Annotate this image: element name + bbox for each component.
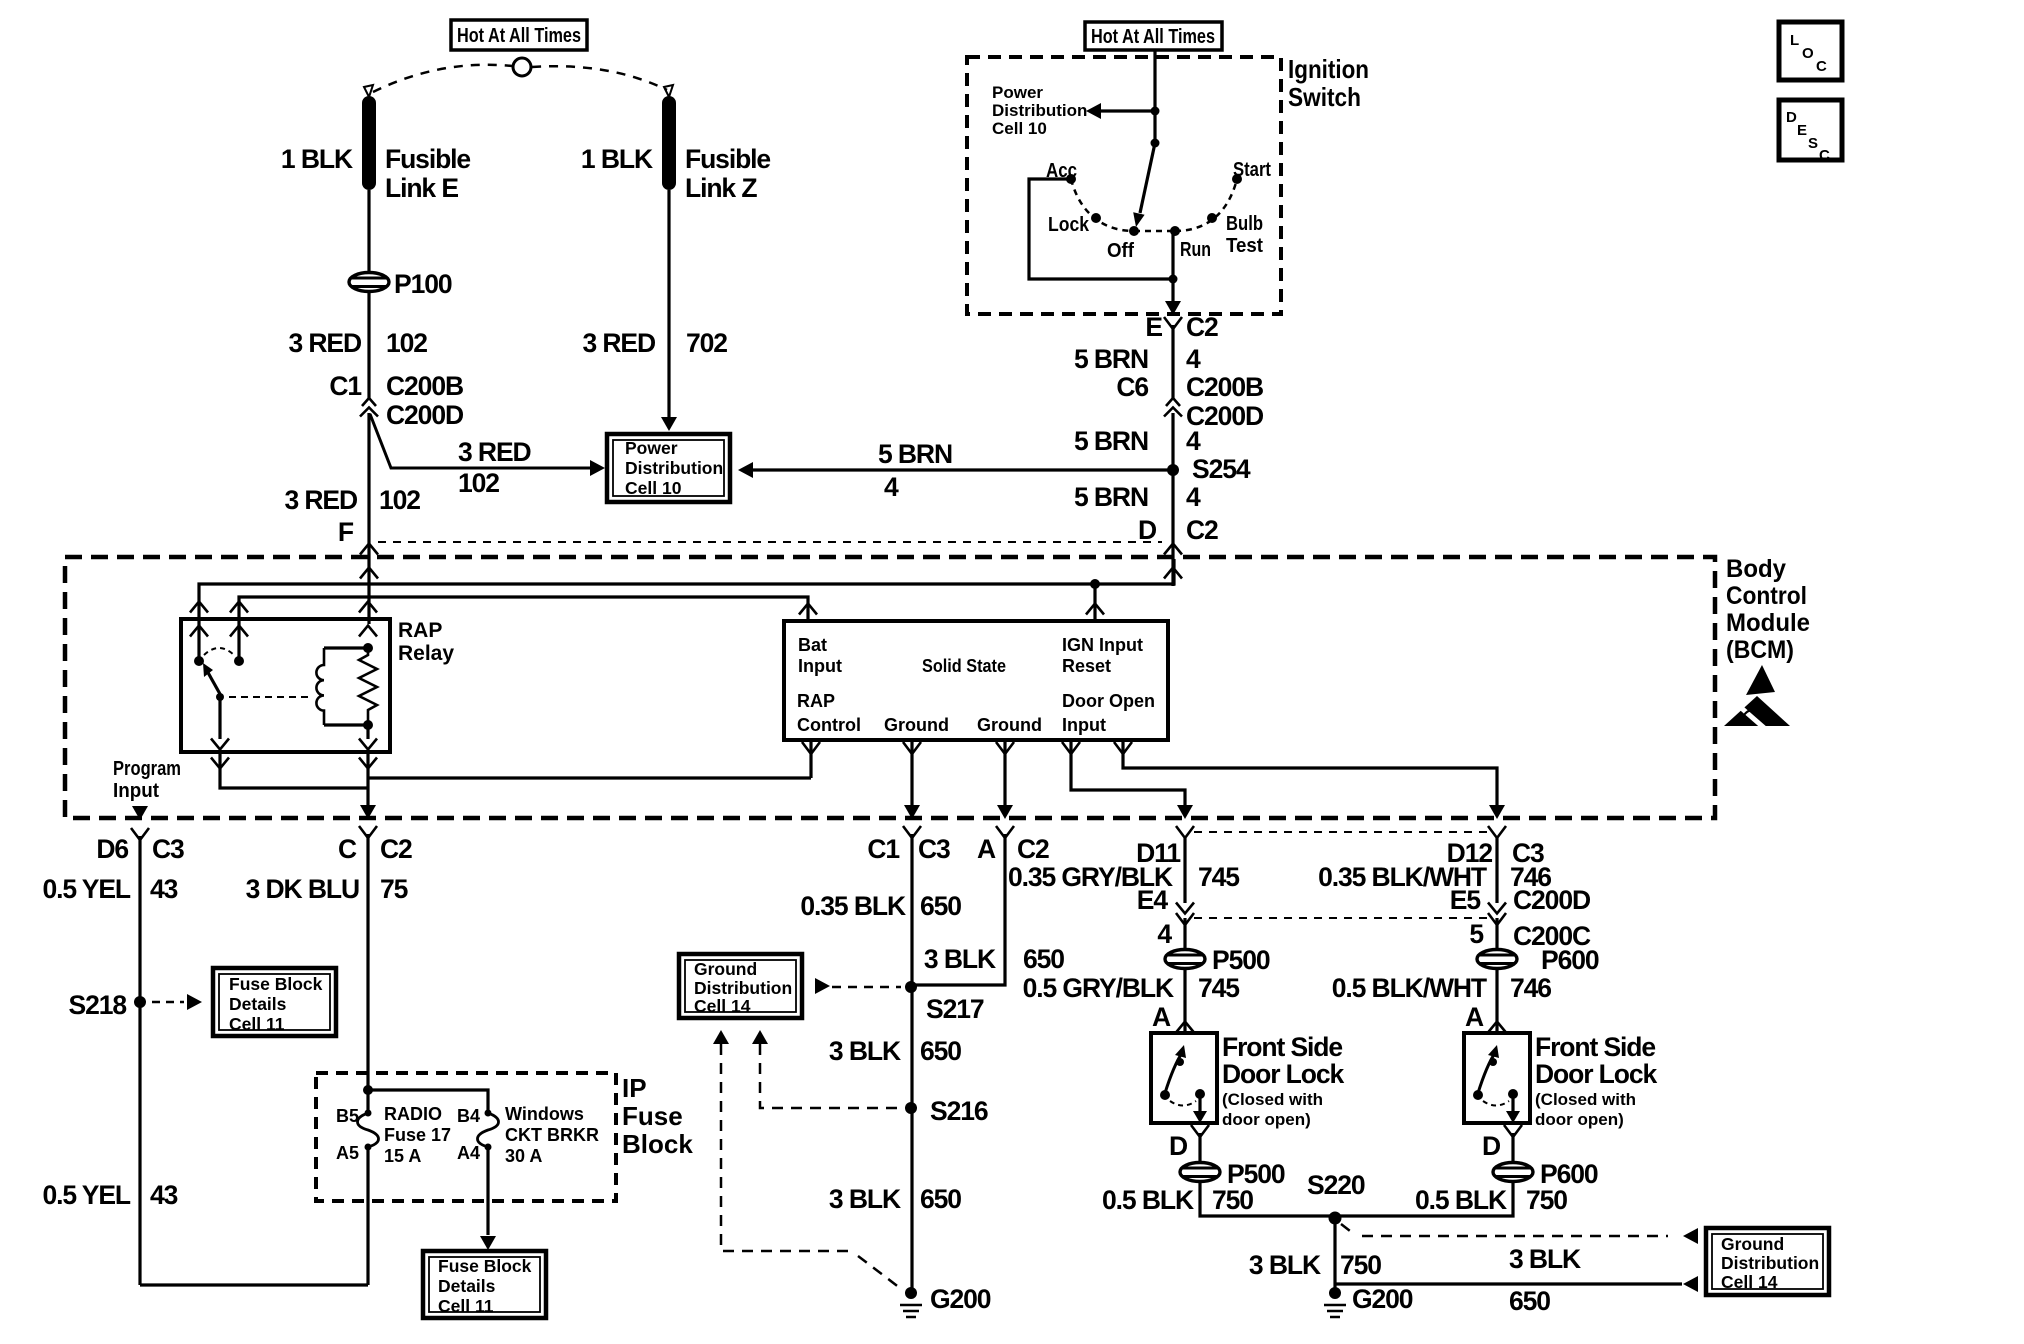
bus wire battery feed (bus1) [199, 559, 1174, 621]
junction dot IGN input tap [1090, 579, 1100, 589]
door lock contact R dot (left) [1195, 1089, 1205, 1099]
svg-text:3 BLK: 3 BLK [1249, 1250, 1321, 1280]
junction dot (ignition feed) [1151, 107, 1160, 116]
door lock arm arrowhead (right) [1488, 1045, 1499, 1058]
wire P600 to S220 [1335, 1183, 1513, 1216]
door lock arm dot (right) [1489, 1058, 1497, 1066]
svg-text:Input: Input [113, 780, 159, 802]
svg-text:Hot At All Times: Hot At All Times [1091, 26, 1215, 48]
wire A C2 to S217 [913, 834, 1005, 985]
svg-text:0.5 GRY/BLK: 0.5 GRY/BLK [1023, 973, 1174, 1003]
chevron ignition output [1164, 317, 1182, 329]
svg-text:C3: C3 [152, 834, 184, 864]
svg-text:B4: B4 [457, 1106, 480, 1126]
IP Fuse Block dashed box [316, 1073, 616, 1201]
junction dot below Run [1169, 275, 1178, 284]
connector P600 (lower) [1493, 1163, 1533, 1182]
svg-text:Power: Power [992, 83, 1043, 102]
svg-text:Fuse: Fuse [622, 1101, 683, 1131]
wire S254 to Power Distribution [752, 468, 1173, 471]
chevron below BCM (C1) [903, 826, 921, 838]
chevron IGN Input pin [1086, 604, 1104, 615]
wire C C2 down to fuse block [366, 834, 369, 1113]
svg-text:Run: Run [1180, 239, 1211, 261]
chevron RAP Control pin [802, 742, 820, 754]
svg-text:Fuse 17: Fuse 17 [384, 1125, 451, 1145]
ignition wiper arrowhead [1133, 212, 1144, 227]
svg-text:4: 4 [884, 472, 899, 502]
junction bus bar splice (Hot At All Times) [451, 20, 587, 50]
relay switch output chevrons [211, 739, 229, 750]
svg-text:E4: E4 [1137, 885, 1169, 915]
wire link Z to Power Distribution [667, 190, 670, 417]
splice S254 [1167, 464, 1179, 476]
connector P500 (lower) [1180, 1163, 1220, 1182]
svg-text:C: C [338, 834, 357, 864]
contact Lock [1091, 213, 1101, 223]
svg-text:5: 5 [1469, 919, 1483, 949]
connector C200B/C200D chevrons (left) [362, 398, 376, 406]
svg-text:Relay: Relay [398, 642, 454, 665]
svg-text:G200: G200 [1352, 1284, 1413, 1314]
svg-text:Front Side: Front Side [1535, 1032, 1655, 1062]
Fuse Block Details Cell 11 box (lower) [423, 1251, 546, 1318]
chevron below BCM (D6) [131, 828, 149, 840]
ground G200 (left) [905, 1287, 917, 1299]
svg-text:Ground: Ground [977, 715, 1042, 735]
svg-text:Ground: Ground [884, 715, 949, 735]
chevron at BCM boundary (D) [1164, 544, 1182, 555]
svg-text:Front Side: Front Side [1222, 1032, 1342, 1062]
svg-text:RAP: RAP [797, 691, 835, 711]
svg-text:102: 102 [458, 468, 499, 498]
wire A5 down [366, 1147, 369, 1285]
svg-text:Door Lock: Door Lock [1535, 1059, 1657, 1089]
contact Run [1170, 226, 1180, 236]
arrowhead dashed (right ground dist) [1683, 1228, 1698, 1244]
fusible link Z terminal [664, 85, 673, 97]
relay contact B dot [234, 656, 244, 666]
Body Control Module dashed box [65, 557, 1715, 818]
chevron below BCM (D12) [1488, 826, 1506, 838]
svg-text:door open): door open) [1535, 1110, 1624, 1129]
svg-text:Bulb: Bulb [1226, 213, 1263, 235]
arrowhead ground ref 1 [713, 1030, 729, 1044]
svg-text:B5: B5 [336, 1106, 359, 1126]
chevron at BCM boundary (F) [360, 544, 378, 555]
svg-text:RADIO: RADIO [384, 1104, 442, 1124]
svg-text:Lock: Lock [1048, 214, 1090, 236]
splice S217 [905, 981, 917, 993]
svg-text:C200B: C200B [1186, 372, 1263, 402]
door lock contact R dot (right) [1508, 1089, 1518, 1099]
svg-text:IP: IP [622, 1073, 647, 1103]
svg-text:P500: P500 [1212, 945, 1270, 975]
svg-text:0.5 BLK/WHT: 0.5 BLK/WHT [1332, 973, 1487, 1003]
relay contact A dot [194, 656, 204, 666]
svg-text:3 RED: 3 RED [284, 485, 358, 515]
arrowhead into Power Distribution top [661, 417, 677, 431]
door lock output arrowhead (left) [1193, 1111, 1207, 1123]
dashed reference wire S218 [152, 1001, 184, 1004]
wire D11 down to E4 [1183, 838, 1186, 903]
arrowhead ignition output [1165, 301, 1181, 315]
arrowhead BCM exit (D6) [132, 806, 148, 820]
svg-text:3 RED: 3 RED [288, 328, 362, 358]
svg-text:4: 4 [1157, 919, 1172, 949]
relay coil [316, 648, 324, 725]
svg-text:(Closed with: (Closed with [1535, 1090, 1636, 1109]
svg-text:A: A [1465, 1002, 1484, 1032]
splice ring node [513, 58, 531, 76]
svg-text:C: C [1819, 147, 1830, 164]
relay mechanical link dashes [229, 696, 311, 698]
svg-text:Windows: Windows [505, 1104, 584, 1124]
svg-text:Test: Test [1226, 235, 1263, 257]
svg-text:Fusible: Fusible [385, 144, 470, 174]
wire G200 to Ground Distribution [1335, 1282, 1682, 1285]
svg-text:Distribution: Distribution [992, 101, 1087, 120]
arrowhead solid (right ground dist) [1683, 1276, 1698, 1292]
connector C200B/C200D chevrons (right) [1166, 398, 1180, 406]
contact Bulb Test [1207, 213, 1217, 223]
chevron Ground pin 1 [903, 742, 921, 754]
wire Door Open 2 to D12 [1123, 740, 1497, 807]
svg-text:Cell 11: Cell 11 [438, 1296, 494, 1316]
wire lock to P500 D [1198, 1133, 1201, 1162]
relay coil output chevrons [359, 739, 377, 750]
Ground Distribution Cell 14 box (left) [679, 954, 802, 1018]
door lock contact L dot (left) [1160, 1090, 1170, 1100]
relay resistor [359, 648, 377, 725]
svg-text:A: A [977, 834, 996, 864]
svg-text:Input: Input [1062, 715, 1106, 735]
svg-text:3 BLK: 3 BLK [829, 1036, 901, 1066]
svg-text:A: A [1152, 1002, 1171, 1032]
svg-text:1 BLK: 1 BLK [281, 144, 353, 174]
svg-text:G200: G200 [930, 1284, 991, 1314]
connector P500 (upper) [1165, 950, 1205, 969]
fusible link E [362, 96, 376, 190]
svg-text:Distribution: Distribution [1721, 1253, 1819, 1273]
svg-text:C1: C1 [329, 371, 361, 401]
relay coil output wire [366, 725, 369, 739]
svg-text:O: O [1802, 45, 1814, 62]
ground G200 (right) [1329, 1287, 1341, 1299]
svg-text:F: F [338, 517, 354, 547]
svg-text:E: E [1145, 312, 1162, 342]
svg-text:102: 102 [386, 328, 427, 358]
svg-text:C2: C2 [1017, 834, 1049, 864]
door lock output wire (right) [1511, 1094, 1514, 1111]
chevron below BCM (A) [996, 826, 1014, 838]
svg-text:750: 750 [1212, 1185, 1253, 1215]
wire bottom run D6 to fuse [140, 1283, 368, 1286]
svg-text:A5: A5 [336, 1143, 359, 1163]
svg-text:E5: E5 [1450, 885, 1481, 915]
front side door lock box (left) [1151, 1033, 1217, 1123]
relay coil top lead [324, 646, 368, 649]
relay coil bottom lead [324, 723, 368, 726]
arrowhead into Power Distribution box [590, 460, 605, 476]
fuse RADIO Fuse 17 15A [358, 1113, 379, 1147]
wire E4 to P500 [1183, 918, 1186, 949]
wire lock to P600 D [1511, 1133, 1514, 1162]
svg-text:Distribution: Distribution [694, 978, 792, 998]
door lock output arrowhead (right) [1506, 1111, 1520, 1123]
ignition rotary dashed arc [1071, 179, 1134, 231]
splice S220 [1329, 1212, 1342, 1225]
Hot At All Times box (ignition) [1085, 22, 1222, 50]
svg-text:75: 75 [380, 874, 408, 904]
door lock arm arrowhead (left) [1175, 1045, 1186, 1058]
Ground Distribution Cell 14 box (right) [1706, 1228, 1829, 1295]
contact Acc [1066, 174, 1076, 184]
svg-text:P600: P600 [1541, 945, 1599, 975]
svg-text:650: 650 [1023, 944, 1064, 974]
svg-text:Fusible: Fusible [685, 144, 770, 174]
svg-text:Off: Off [1107, 240, 1134, 262]
svg-text:3 BLK: 3 BLK [829, 1184, 901, 1214]
svg-text:D: D [1482, 1131, 1501, 1161]
door lock dashed arc (left) [1170, 1101, 1196, 1106]
svg-text:5 BRN: 5 BRN [1074, 344, 1148, 374]
wire IGN input tap [1093, 584, 1096, 623]
svg-text:Ground: Ground [694, 959, 757, 979]
svg-text:S218: S218 [69, 990, 127, 1020]
chevron Door Open pin 1 [1062, 742, 1080, 754]
wire ignition to C200B [1171, 325, 1174, 400]
wire to Power Distribution reference [1100, 109, 1155, 112]
svg-text:650: 650 [920, 1184, 961, 1214]
svg-text:IGN Input: IGN Input [1062, 635, 1143, 655]
relay switch output wire [218, 697, 221, 739]
ground wire C1 to G200 [910, 834, 913, 1290]
svg-text:P100: P100 [394, 269, 452, 299]
dashed feed wire to Fusible Link E [373, 65, 512, 92]
wire D12 down to E5 [1495, 838, 1498, 903]
chevrons relay pin B [230, 602, 248, 613]
relay coil top junction dot [363, 643, 373, 653]
wire Door Open 1 to D11 [1071, 740, 1185, 807]
door lock arm dot (left) [1176, 1058, 1184, 1066]
svg-text:Program: Program [113, 758, 181, 780]
splice S218 [134, 996, 146, 1008]
door lock switch arm (right) [1478, 1053, 1495, 1093]
relay contact A wire [197, 621, 200, 657]
svg-text:102: 102 [379, 485, 420, 515]
svg-text:4: 4 [1186, 426, 1201, 456]
ESD sensitivity symbol [1724, 696, 1790, 726]
connector P600 (upper) [1477, 950, 1517, 969]
svg-text:CKT BRKR: CKT BRKR [505, 1125, 599, 1145]
dashed ground ref wire 2 [760, 1044, 901, 1108]
dashed wire S220 to Ground Distribution [1341, 1224, 1668, 1236]
svg-text:Switch: Switch [1288, 82, 1361, 112]
svg-text:C2: C2 [380, 834, 412, 864]
chevron below BCM (D11) [1176, 826, 1194, 838]
svg-text:C200D: C200D [1513, 885, 1591, 915]
splice S216 [905, 1102, 917, 1114]
svg-text:745: 745 [1198, 862, 1239, 892]
svg-text:Bat: Bat [798, 635, 827, 655]
svg-text:Cell 11: Cell 11 [229, 1014, 285, 1034]
wire D6 down [138, 836, 141, 1285]
chevron below BCM (C) [359, 826, 377, 838]
svg-text:702: 702 [686, 328, 727, 358]
wire fuse feed to breaker [368, 1090, 488, 1113]
wire P100 to C200B [367, 292, 370, 399]
svg-text:door open): door open) [1222, 1110, 1311, 1129]
svg-text:5 BRN: 5 BRN [1074, 426, 1148, 456]
svg-text:Input: Input [798, 656, 842, 676]
svg-text:0.5 BLK: 0.5 BLK [1102, 1185, 1194, 1215]
ignition feed wire [1153, 50, 1156, 143]
contact Start [1232, 174, 1242, 184]
svg-text:C: C [1816, 58, 1827, 75]
svg-text:Body: Body [1726, 555, 1786, 583]
dashed wire to S217 [832, 986, 901, 989]
dashed feed wire to Fusible Link Z [532, 66, 667, 90]
svg-text:Fuse Block: Fuse Block [438, 1256, 532, 1276]
wire relay switch to node [220, 752, 367, 788]
svg-text:Start: Start [1233, 159, 1271, 181]
svg-text:Block: Block [622, 1129, 693, 1159]
wire RAP Control pin [809, 740, 812, 778]
chevron Bat Input pin [799, 604, 817, 615]
svg-text:RAP: RAP [398, 619, 442, 642]
svg-text:746: 746 [1510, 973, 1551, 1003]
svg-text:Cell 14: Cell 14 [694, 996, 751, 1016]
junction dot at fuse feed [363, 1085, 373, 1095]
arrowhead BCM exit (C) [360, 805, 376, 819]
svg-text:Link E: Link E [385, 173, 458, 203]
wire RAP control run [368, 776, 811, 779]
connector C200 dashed line (doors) [1194, 917, 1488, 919]
chevron lock A input (right) [1488, 1022, 1506, 1033]
arrowhead into Power Distribution right [738, 462, 753, 478]
chevron lock A input [1176, 1022, 1194, 1033]
fusible link Z [662, 96, 676, 190]
circuit breaker Windows CKT BRKR 30A [478, 1113, 499, 1147]
connector C3 dashed tie line (D11-D12) [1194, 831, 1488, 833]
RAP Relay box [181, 619, 390, 752]
svg-text:Details: Details [229, 994, 287, 1014]
svg-text:Control: Control [1726, 582, 1807, 610]
chevron below lock (right) [1504, 1125, 1522, 1137]
svg-text:S: S [1808, 135, 1818, 152]
arrowhead BCM exit (C1) [904, 805, 920, 819]
svg-text:Link Z: Link Z [685, 173, 757, 203]
svg-text:Cell 14: Cell 14 [1721, 1272, 1778, 1292]
chevron Ground pin 2 [996, 742, 1014, 754]
svg-text:Ground: Ground [1721, 1234, 1784, 1254]
arrowhead BCM exit (D12) [1489, 805, 1505, 819]
svg-text:Module: Module [1726, 609, 1810, 637]
svg-text:3 RED: 3 RED [582, 328, 656, 358]
svg-text:3 DK BLU: 3 DK BLU [246, 874, 359, 904]
ignition switch dashed box [967, 57, 1281, 314]
svg-text:4: 4 [1186, 344, 1201, 374]
svg-text:D: D [1169, 1131, 1188, 1161]
svg-text:Control: Control [797, 715, 861, 735]
svg-text:750: 750 [1526, 1185, 1567, 1215]
arrowhead BCM exit (D11) [1177, 805, 1193, 819]
svg-text:Reset: Reset [1062, 656, 1111, 676]
wire S220 to G200 [1333, 1218, 1336, 1289]
svg-text:Door Open: Door Open [1062, 691, 1155, 711]
arrowhead to Fuse Block Details lower [480, 1236, 496, 1250]
svg-text:4: 4 [1186, 482, 1201, 512]
svg-text:C200D: C200D [386, 400, 464, 430]
ignition wiper pivot dot [1151, 139, 1160, 148]
wire link E to P100 [367, 190, 370, 272]
wire C200D down into BCM [367, 413, 370, 624]
bus wire relay output (bus2) [239, 597, 808, 623]
Acc branch wire [1029, 179, 1173, 279]
Power Distribution Cell 10 box [607, 434, 730, 502]
fusible link E terminal [364, 85, 373, 97]
connector P100 [349, 273, 389, 292]
branch wire to Power Distribution [370, 414, 592, 468]
svg-text:S254: S254 [1192, 454, 1251, 484]
chevron Door Open pin 2 [1114, 742, 1132, 754]
relay switch pivot dot [216, 693, 224, 701]
svg-text:Cell 10: Cell 10 [992, 119, 1047, 138]
solid state module box [784, 621, 1168, 740]
relay switch arm [206, 669, 220, 694]
svg-text:Cell 10: Cell 10 [625, 478, 682, 498]
svg-text:S216: S216 [930, 1096, 988, 1126]
svg-text:Hot At All Times: Hot At All Times [457, 25, 581, 47]
chevrons relay pin C [359, 602, 377, 613]
svg-text:750: 750 [1340, 1250, 1381, 1280]
svg-text:43: 43 [150, 874, 178, 904]
svg-text:0.35 BLK: 0.35 BLK [800, 891, 906, 921]
svg-text:C200B: C200B [386, 371, 463, 401]
svg-text:650: 650 [920, 891, 961, 921]
svg-text:A4: A4 [457, 1143, 480, 1163]
svg-text:D: D [1786, 109, 1797, 126]
svg-text:0.5 YEL: 0.5 YEL [42, 874, 130, 904]
arrowhead to Fuse Block Details [187, 994, 202, 1010]
svg-text:650: 650 [920, 1036, 961, 1066]
svg-text:D: D [1138, 515, 1157, 545]
svg-text:L: L [1790, 32, 1799, 49]
arrowhead BCM exit (A) [997, 805, 1013, 819]
door lock contact L dot (right) [1473, 1090, 1483, 1100]
wire relay coil output down [366, 752, 369, 807]
relay coil bottom junction dot [363, 720, 373, 730]
front side door lock box (right) [1464, 1033, 1530, 1123]
svg-text:Fuse Block: Fuse Block [229, 974, 323, 994]
svg-text:5 BRN: 5 BRN [878, 439, 952, 469]
LOC index box [1779, 22, 1842, 80]
door lock dashed arc (right) [1483, 1101, 1509, 1106]
contact Off [1129, 226, 1139, 236]
svg-text:0.5 YEL: 0.5 YEL [42, 1180, 130, 1210]
ignition wiper arm [1140, 143, 1155, 213]
Run output wire [1171, 231, 1174, 303]
arrowhead ground ref 2 [752, 1030, 768, 1044]
door lock output wire (left) [1198, 1094, 1201, 1111]
svg-text:Solid State: Solid State [922, 656, 1006, 676]
svg-text:E: E [1797, 122, 1807, 139]
connector E4 chevrons [1176, 903, 1194, 914]
svg-text:C2: C2 [1186, 515, 1218, 545]
svg-text:Power: Power [625, 438, 678, 458]
wire A4 down [486, 1147, 489, 1235]
